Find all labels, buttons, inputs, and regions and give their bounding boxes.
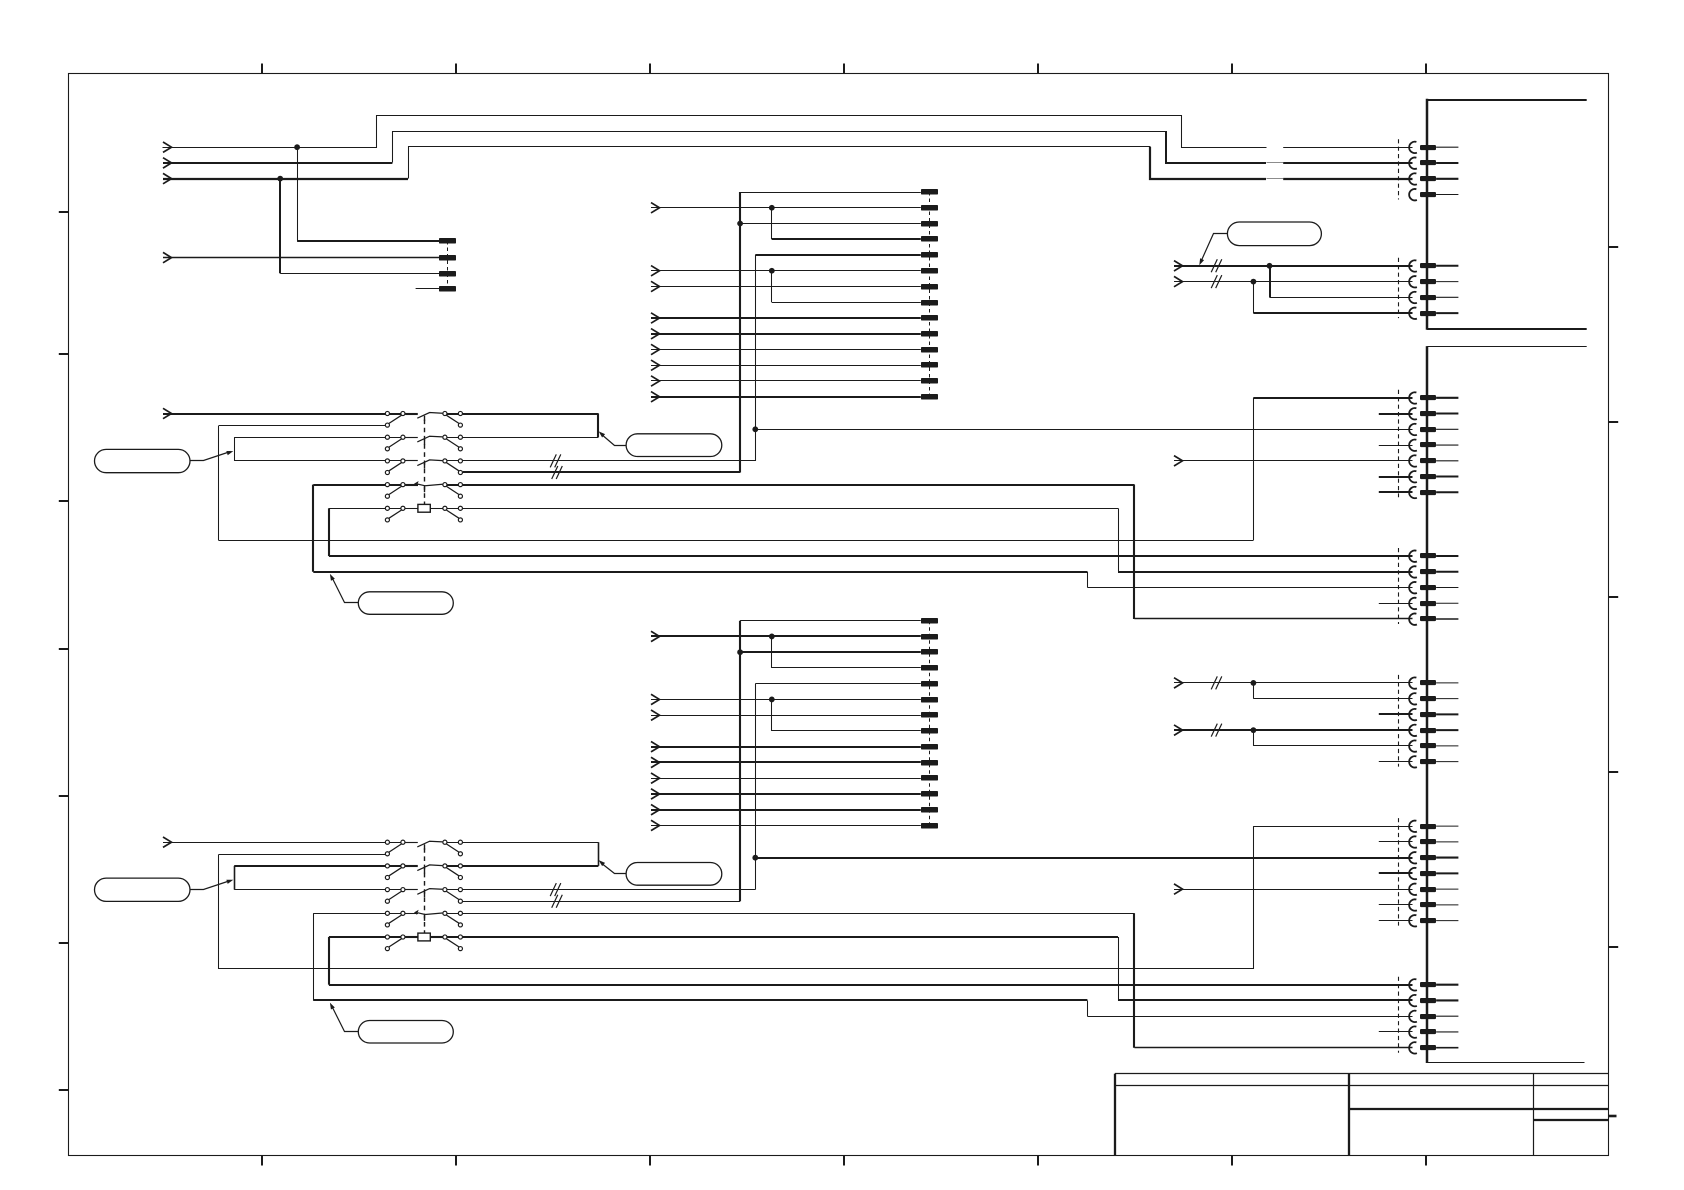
connector pin J2 group3 p4 — [1409, 725, 1458, 736]
input arrow TB2 row 6 — [651, 266, 660, 276]
switch SW1 row4 left contacts — [385, 483, 405, 499]
callout leader L3 — [330, 574, 359, 603]
connector pin J1 upper p3 — [1409, 173, 1458, 184]
title block frame — [1115, 1074, 1609, 1157]
wire TB3-10 feed — [651, 761, 921, 763]
input arrow SW1 row1 — [163, 408, 172, 418]
wire IN3 landing to pin J1A-3 — [1150, 147, 1413, 179]
callout label L6 (SW2 row4 loop) — [358, 1021, 453, 1044]
connector pin J2 group2 p3 — [1409, 582, 1458, 593]
connector J2 group3 shell dashed line — [1398, 675, 1400, 767]
wire SW1 row1 lower contact net (to J2 pin B1-1) — [219, 398, 1413, 541]
connector J2 group5 shell dashed line — [1398, 977, 1400, 1053]
input arrow A6 (to J2 group3) — [1174, 725, 1183, 735]
callout leader L1 — [191, 451, 234, 460]
callout label L2 (SW1 right U-link) — [626, 434, 722, 457]
input arrow IN2 — [163, 158, 172, 168]
terminal TB3-14 — [921, 823, 938, 829]
input arrow TB2 row 13 — [651, 376, 660, 386]
wire SW2 row5 right (to J2 pin B5-2) — [463, 937, 1413, 1001]
wire TB2-2 feed — [651, 207, 921, 209]
switch SW2 row2 right contacts — [443, 864, 463, 880]
connector pin J1 lower p1 — [1409, 260, 1458, 271]
junction node on IN3 — [277, 176, 283, 182]
border fold tick marks left — [59, 212, 68, 1090]
switch SW2 row3 left contacts — [385, 888, 405, 904]
switch SW2 row4 right contacts — [443, 911, 463, 927]
terminal TB2-4 — [921, 236, 938, 242]
wire stub to J2 pin B5-4 — [1379, 1031, 1413, 1033]
input arrow TB2 row 7 — [651, 281, 660, 291]
wire SW2 row4 left loop (to J2 pin B5-3) — [313, 913, 1412, 1016]
terminal TB2-3 — [921, 221, 938, 227]
wire A3 branch to pin J1B-3 — [1270, 266, 1413, 298]
wire IN4 to terminal TB1-2 — [163, 257, 439, 259]
wire TB2 row6 branch to TB2-8 — [772, 271, 921, 303]
input arrow to J2 pin B1-5 — [1174, 456, 1183, 466]
input arrow IN1 — [163, 142, 172, 152]
switch SW2 row3 right contacts — [443, 888, 463, 904]
connector pin J2 group2 p5 — [1409, 613, 1458, 624]
switch SW1 row5 right contacts — [443, 506, 463, 522]
wire arrow to SW2 row1 — [163, 842, 385, 844]
junction node A6 — [1251, 727, 1257, 733]
wire SW2 row3 right to bus V4 — [463, 889, 756, 891]
connector pin J2 group1 p1 — [1409, 392, 1458, 403]
terminal TB1-2 — [439, 255, 456, 261]
wire SW1 row1 to row2 right U-link — [463, 414, 599, 438]
wire TB3-5 feed — [755, 683, 921, 685]
wire TB2-3 feed — [740, 223, 921, 225]
input arrow TB2 row 2 — [651, 203, 660, 213]
switch SW1 row4 blade actuator arrow — [414, 481, 419, 486]
wire SW2 row1 lower contact net (to J2 pin B4-1) — [219, 826, 1413, 969]
connector J2 bus line — [1426, 346, 1429, 1063]
input arrow TB3 row 2 — [651, 631, 660, 641]
junction node bus V2 to J2 wire — [752, 426, 758, 432]
junction node TB2 row2 — [769, 205, 775, 211]
switch SW1 row4 right contacts — [443, 483, 463, 499]
wire TB3 row6 branch to TB3-8 — [772, 699, 921, 731]
terminal TB3-7 — [921, 712, 938, 718]
wire stub to J2 pin B1-6 — [1379, 476, 1413, 478]
wire IN1 branch to terminal TB1-1 — [297, 147, 439, 241]
wire SW2 row5 left loop (to J2 pin B5-1) — [329, 937, 1413, 985]
wire IN3 branch to terminal TB1-3 — [280, 179, 439, 274]
terminal TB3-8 — [921, 728, 938, 734]
cable double-slash mark SW2 row3 lower — [552, 895, 563, 908]
junction node A4 — [1251, 279, 1257, 285]
connector pin J1 upper p2 — [1409, 157, 1458, 168]
callout label L7 (cable A3/A4) — [1227, 222, 1321, 246]
wire SW2 row3 lower contact to bus V3 — [463, 901, 740, 903]
wire IN2 long run — [393, 132, 1167, 163]
input arrow to J2 pin B4-5 — [1174, 884, 1183, 894]
terminal TB3-10 — [921, 760, 938, 766]
switch SW1 row4 blade — [405, 484, 442, 492]
terminal TB3-1 — [921, 618, 938, 624]
connector pin J2 group4 p2 — [1409, 836, 1458, 847]
wire arrow to J2 pin B1-5 — [1174, 460, 1413, 462]
input arrow IN3 — [163, 173, 172, 183]
connector pin J2 group3 p6 — [1409, 756, 1458, 767]
connector pin J2 group4 p4 — [1409, 868, 1458, 879]
input arrow TB3 row 9 — [651, 742, 660, 752]
cable double-slash mark SW1 row3 lower — [552, 466, 563, 479]
terminal TB3-12 — [921, 791, 938, 797]
switch SW1 row3 right contacts — [443, 459, 463, 475]
connector J1 upper shell dashed line — [1398, 139, 1400, 199]
connector pin J2 group1 p2 — [1409, 408, 1458, 419]
wire TB3-12 feed — [651, 793, 921, 795]
cable double-slash mark SW1 row3 — [550, 454, 561, 467]
junction node bus V1 row3 — [737, 221, 743, 227]
terminal TB3-5 — [921, 681, 938, 687]
terminal TB2-14 — [921, 394, 938, 400]
junction node TB2 row6 — [769, 268, 775, 274]
junction node on IN1 — [294, 144, 300, 150]
input arrow A5 (to J2 group3) — [1174, 678, 1183, 688]
connector J2 device box outline — [1427, 347, 1587, 1063]
wire TB2-1 feed — [740, 192, 921, 194]
connector pin J2 group5 p5 — [1409, 1042, 1458, 1053]
wire stub to J2 pin B4-6 — [1379, 904, 1413, 906]
wire A5 to pin B3-1 — [1174, 682, 1413, 684]
wire SW1 row2-row3 left tie — [234, 437, 385, 461]
wire TB2-12 feed — [651, 365, 921, 367]
switch SW1 row2 left contacts — [385, 435, 405, 451]
switch SW1 gang dashed line — [424, 420, 426, 505]
wire A5 branch to pin B3-2 — [1253, 683, 1412, 699]
wire TB3 row2 branch to TB3-4 — [772, 636, 921, 668]
wire stub to pin B3-3 — [1379, 713, 1413, 715]
callout leader L6 — [330, 1003, 359, 1032]
wire bus V4 (TB3-5 to switch SW2 row3 line) — [755, 684, 757, 890]
wire stub to J2 pin B2-4 — [1379, 603, 1413, 605]
wire TB2-7 feed — [651, 286, 921, 288]
junction node bus V3 row3 — [737, 649, 743, 655]
connector pin J2 group2 p1 — [1409, 550, 1458, 561]
terminal TB2-13 — [921, 378, 938, 384]
connector pin J2 group4 p5 — [1409, 884, 1458, 895]
input arrow TB3 row 7 — [651, 710, 660, 720]
border fold tick marks bottom — [262, 1156, 1426, 1166]
input arrow TB2 row 14 — [651, 392, 660, 402]
junction node TB3 row2 — [769, 634, 775, 640]
connector pin J1 upper p1 — [1409, 142, 1458, 153]
switch SW1 row1 blade — [405, 413, 442, 422]
callout leader L2 — [599, 431, 627, 445]
junction node TB3 row6 — [769, 697, 775, 703]
wire TB2-10 feed — [651, 333, 921, 335]
wire SW1 row3 right to bus V2 — [463, 460, 756, 462]
wire bus V3 (TB3-1/TB3-3 to switch SW2 row3 lower contact) — [739, 621, 741, 902]
wire TB3-14 feed — [651, 825, 921, 827]
terminal TB2-7 — [921, 284, 938, 290]
wire SW2 row1 to row2 right U-link — [463, 842, 599, 866]
wire TB3-9 feed — [651, 746, 921, 748]
terminal block TB3 dashed gang line — [929, 621, 931, 826]
input arrow TB2 row 10 — [651, 329, 660, 339]
callout leader L5 — [599, 860, 627, 873]
wire TB2-5 feed — [755, 254, 921, 256]
wire SW1 row4 right (to J2 pin B2-5) — [463, 485, 1413, 619]
input arrow TB3 row 13 — [651, 805, 660, 815]
switch SW2 row1 right contacts — [443, 840, 463, 856]
connector J1 lower shell dashed line — [1398, 258, 1400, 318]
input arrow A3 (to J1 lower) — [1174, 261, 1183, 271]
connector pin J2 group1 p3 — [1409, 424, 1458, 435]
input arrow TB3 row 11 — [651, 773, 660, 783]
wire bus V4 to J2 pin B4-3 — [755, 857, 1412, 859]
wire stub to J2 pin B4-2 — [1379, 841, 1413, 843]
wire IN3 arrow segment — [163, 178, 408, 180]
wire SW1 row3 lower contact to bus V1 — [463, 471, 740, 473]
wire TB2-14 feed — [651, 396, 921, 398]
wire stub to terminal TB1-4 — [416, 288, 440, 290]
switch SW2 row5 left contacts — [385, 935, 405, 951]
connector pin J2 group5 p3 — [1409, 1011, 1458, 1022]
switch SW2 gang dashed line — [424, 848, 426, 933]
wire IN3 long run — [409, 147, 1151, 179]
wire stub to J2 pin B1-2 — [1379, 413, 1413, 415]
wire TB3-6 feed — [651, 699, 921, 701]
connector pin J2 group1 p6 — [1409, 471, 1458, 482]
connector pin J2 group1 p7 — [1409, 487, 1458, 498]
terminal TB3-13 — [921, 807, 938, 813]
switch SW2 row2 left contacts — [385, 864, 405, 880]
connector J2 group4 shell dashed line — [1398, 818, 1400, 926]
terminal TB2-10 — [921, 331, 938, 337]
connector pin J2 group4 p1 — [1409, 821, 1458, 832]
switch SW2 row4 left contacts — [385, 911, 405, 927]
wire IN1 landing to pin J1A-1 — [1283, 147, 1412, 149]
terminal TB2-1 — [921, 189, 938, 195]
terminal TB2-6 — [921, 268, 938, 274]
cable double-slash mark A6 — [1211, 724, 1222, 737]
wire bus V2 to J2 pin B1-3 — [755, 429, 1412, 431]
input arrow TB3 row 12 — [651, 789, 660, 799]
cable double-slash mark A3 — [1211, 259, 1222, 272]
switch SW2 row1 blade — [405, 841, 442, 850]
wire IN1 to step — [163, 116, 1267, 148]
terminal block TB2 dashed gang line — [929, 192, 931, 397]
wire TB3-7 feed — [651, 715, 921, 717]
terminal TB3-2 — [921, 634, 938, 640]
wire TB2-6 feed — [651, 270, 921, 272]
callout label L3 (SW1 row4 loop) — [358, 592, 453, 615]
wire A4 branch to pin J1B-4 — [1253, 282, 1412, 314]
connector pin J2 group4 p6 — [1409, 899, 1458, 910]
switch SW1 row3 blade — [405, 460, 442, 469]
input arrow TB3 row 6 — [651, 694, 660, 704]
switch SW1 row1 left contacts — [385, 411, 405, 427]
switch SW1 row5 centre links — [405, 508, 442, 510]
wire SW1 row5 right (to J2 pin B2-2) — [463, 508, 1413, 572]
terminal TB2-2 — [921, 205, 938, 211]
wire A6 to pin B3-4 — [1174, 729, 1413, 731]
wire arrow to J2 pin B4-5 — [1174, 889, 1413, 891]
connector pin J2 group3 p5 — [1409, 740, 1458, 751]
connector pin J1 lower p3 — [1409, 292, 1458, 303]
connector pin J2 group3 p3 — [1409, 709, 1458, 720]
connector pin J2 group2 p2 — [1409, 566, 1458, 577]
switch SW1 row2 right contacts — [443, 435, 463, 451]
wire TB3-11 feed — [651, 778, 921, 780]
callout label L4 (switch bank SW2 left) — [95, 878, 191, 901]
wire TB2-11 feed — [651, 349, 921, 351]
terminal TB1-3 — [439, 271, 456, 277]
wire TB2 row2 branch to TB2-4 — [772, 208, 921, 240]
terminal TB3-3 — [921, 649, 938, 655]
wire SW1 row5 left loop (to J2 pin B2-1) — [329, 508, 1413, 556]
connector pin J2 group3 p1 — [1409, 677, 1458, 688]
connector pin J2 group5 p1 — [1409, 979, 1458, 990]
wire TB3-2 feed — [651, 635, 921, 637]
terminal TB3-6 — [921, 697, 938, 703]
wire TB3-13 feed — [651, 809, 921, 811]
wire TB3-1 feed — [740, 620, 921, 622]
switch SW1 actuator box — [418, 504, 430, 512]
wire IN2 landing to pin J1A-2 — [1166, 131, 1413, 163]
wire A4 to pin J1B-2 — [1174, 281, 1413, 283]
input arrow IN4 — [163, 252, 172, 262]
wire A3 to pin J1B-1 — [1174, 265, 1413, 267]
junction node bus V4 to J2 wire — [752, 855, 758, 861]
wire SW1 row4 left loop (to J2 pin B2-3) — [313, 485, 1413, 588]
switch SW2 row1 left contacts — [385, 840, 405, 856]
terminal TB3-4 — [921, 665, 938, 671]
switch SW2 row5 right contacts — [443, 935, 463, 951]
switch SW1 row5 left contacts — [385, 506, 405, 522]
connector pin J1 upper p4 — [1409, 189, 1458, 200]
terminal TB2-8 — [921, 300, 938, 306]
wire IN2 arrow segment — [163, 162, 392, 164]
input arrow A4 (to J1 lower) — [1174, 276, 1183, 286]
cable double-slash mark SW2 row3 — [550, 883, 561, 896]
terminal block TB1 dashed gang line — [447, 241, 449, 289]
wire arrow to SW1 row1 — [163, 413, 385, 415]
terminal TB2-11 — [921, 347, 938, 353]
input arrow TB3 row 14 — [651, 820, 660, 830]
wire bus V2 (TB2-5 to switch SW1 row3 line) — [755, 255, 757, 461]
connector pin J2 group1 p5 — [1409, 455, 1458, 466]
cable double-slash mark A5 — [1211, 676, 1222, 689]
switch SW1 row1 right contacts — [443, 411, 463, 427]
wire TB3-3 feed — [740, 651, 921, 653]
border fold tick marks top — [262, 64, 1426, 74]
switch SW2 row5 centre links — [405, 936, 442, 938]
connector J1 bus line — [1426, 99, 1429, 330]
switch SW2 row3 blade — [405, 889, 442, 898]
connector pin J2 group1 p4 — [1409, 440, 1458, 451]
input arrow TB2 row 9 — [651, 313, 660, 323]
terminal TB1-4 — [439, 286, 456, 292]
wire stub to J2 pin B4-7 — [1379, 920, 1413, 922]
cable double-slash mark A4 — [1211, 275, 1222, 288]
callout label L1 (switch bank SW1 left) — [95, 449, 191, 472]
wire TB2-13 feed — [651, 380, 921, 382]
wire stub to J2 pin B1-4 — [1379, 445, 1413, 447]
wire A6 branch to pin B3-5 — [1253, 730, 1412, 746]
terminal TB3-11 — [921, 775, 938, 781]
wire SW2 row2-row3 left tie — [234, 866, 385, 890]
terminal TB3-9 — [921, 744, 938, 750]
input arrow TB2 row 11 — [651, 344, 660, 354]
connector pin J2 group4 p3 — [1409, 852, 1458, 863]
input arrow SW2 row1 — [163, 837, 172, 847]
connector J2 group2 shell dashed line — [1398, 548, 1400, 624]
connector pin J2 group4 p7 — [1409, 915, 1458, 926]
switch SW2 row4 blade — [405, 913, 442, 921]
terminal TB1-1 — [439, 238, 456, 244]
callout label L5 (SW2 right U-link) — [626, 863, 722, 886]
wire SW2 row4 right (to J2 pin B5-5) — [463, 913, 1413, 1047]
switch SW2 row4 blade actuator arrow — [414, 910, 419, 915]
junction node A3 — [1267, 263, 1273, 269]
wire bus V1 (TB2-1/TB2-3 to switch SW1 row3 lower contact) — [739, 192, 741, 473]
connector pin J1 lower p2 — [1409, 276, 1458, 287]
wire stub to J2 pin B4-4 — [1379, 872, 1413, 874]
connector pin J2 group5 p4 — [1409, 1026, 1458, 1037]
connector J1 device box outline — [1427, 100, 1587, 329]
connector pin J2 group2 p4 — [1409, 598, 1458, 609]
connector pin J1 lower p4 — [1409, 308, 1458, 319]
input arrow TB3 row 10 — [651, 757, 660, 767]
switch SW2 row2 blade — [405, 865, 442, 874]
connector J2 group1 shell dashed line — [1398, 390, 1400, 498]
callout leader L7 — [1199, 234, 1227, 266]
switch SW1 row2 blade — [405, 436, 442, 445]
input arrow TB2 row 12 — [651, 360, 660, 370]
switch SW2 actuator box — [418, 933, 430, 941]
connector pin J2 group5 p2 — [1409, 995, 1458, 1006]
border fold tick marks right — [1609, 247, 1618, 1116]
junction node A5 — [1251, 680, 1257, 686]
wire stub to pin B3-6 — [1379, 761, 1413, 763]
callout leader L4 — [191, 880, 234, 890]
terminal TB2-5 — [921, 252, 938, 258]
terminal TB2-12 — [921, 362, 938, 368]
switch SW1 row3 left contacts — [385, 459, 405, 475]
wire stub to J2 pin B1-7 — [1379, 491, 1413, 493]
wire TB2-9 feed — [651, 317, 921, 319]
terminal TB2-9 — [921, 315, 938, 321]
connector pin J2 group3 p2 — [1409, 693, 1458, 704]
